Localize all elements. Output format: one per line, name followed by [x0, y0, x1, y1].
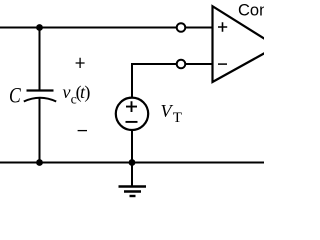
wire capacitor bottom branch [39, 99, 41, 163]
capacitor C top plate [27, 89, 54, 91]
ground bar 3 [130, 195, 136, 197]
terminal circle on + input wire [177, 23, 186, 32]
plus sign inside VT [126, 101, 137, 112]
minus sign inside VT [126, 121, 138, 123]
wire VT bottom branch [131, 130, 133, 163]
voltage source VT circle [116, 98, 148, 130]
terminal circle on - input wire [177, 60, 186, 69]
plus sign at comparator noninverting input [218, 22, 227, 32]
ground bar 1 [119, 185, 147, 187]
ground bar 2 [124, 190, 141, 192]
svg-text:v: v [63, 82, 71, 102]
svg-text:C: C [9, 84, 21, 108]
minus sign at comparator inverting input [218, 63, 227, 65]
svg-text:V: V [161, 101, 174, 121]
node junction dot bottom of capacitor [36, 159, 43, 166]
label plus sign above vc [76, 58, 85, 68]
label minus sign below vc [78, 130, 87, 132]
wire from VT top up and right to comparator - input [132, 64, 213, 97]
op-amp U1 comparator triangle [213, 6, 277, 82]
svg-text:T: T [173, 110, 182, 126]
wire top rail from left edge to comparator + input [0, 27, 213, 29]
wire capacitor top branch [39, 28, 41, 92]
node junction dot bottom of VT [129, 159, 136, 166]
wire bottom rail full width [0, 162, 264, 164]
ground stub wire [131, 163, 133, 187]
capacitor C curved bottom plate [24, 98, 56, 102]
svg-text:Comparator: Comparator [238, 1, 264, 19]
svg-text:): ) [84, 82, 90, 103]
node junction dot top of capacitor [36, 24, 43, 31]
label C [9, 84, 21, 108]
